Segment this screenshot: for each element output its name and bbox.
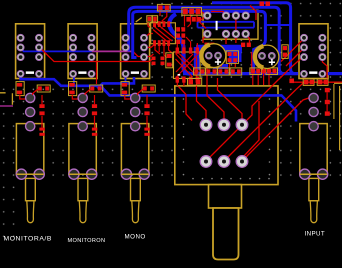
wire: blue pour below C1 <box>213 64 228 69</box>
wire: red diag to INPUT pad row2 <box>286 47 305 66</box>
capacitor C2 <box>255 45 279 68</box>
wire: red continuation to SW3 right pad <box>133 51 154 56</box>
svg-text:MONO: MONO <box>125 234 146 241</box>
wire: blue pour left of C2 upper <box>234 45 242 62</box>
grid dots: top right region <box>258 2 342 84</box>
wire: blue top arc b <box>133 11 266 73</box>
svg-text:MONITORA/B: MONITORA/B <box>4 236 52 243</box>
white silk dash near U3 <box>178 74 181 76</box>
wire: blue pour left of C1 <box>194 47 201 70</box>
SMD right of cap2 <box>282 45 294 83</box>
wire: blue pour band above caps <box>196 45 242 53</box>
toggle switch S4 pads (INPUT) <box>300 34 328 179</box>
yellow fragment at right board edge <box>334 83 342 150</box>
wire: main bottom blue bus across switch tails to pot <box>21 74 296 122</box>
wire: blue DIP elbow right <box>253 22 255 28</box>
pot bushing <box>209 185 242 208</box>
wire: red bus at right edge <box>290 81 342 83</box>
wire: red X inside SOIC U3 <box>176 54 199 79</box>
wire: red diagonals inside SOIC U2 <box>153 26 172 42</box>
SMD pair top right <box>260 2 271 7</box>
grid dots: middle band <box>0 84 342 181</box>
wire: red diag to INPUT pad row1 <box>281 38 305 62</box>
grid dots: top center cluster region <box>145 2 258 84</box>
wire: red drop from SW2 to tail <box>96 62 98 84</box>
potentiometer VR1 body <box>175 86 278 185</box>
SMD trio top center <box>182 8 202 16</box>
toggle switch S1 pads (MONITORA/B) <box>16 34 44 179</box>
wire: red from pot bottom pads up right to INPUT <box>206 57 305 161</box>
wire: blue S-curve through SMD cluster <box>169 14 190 74</box>
IC U1 DIP body <box>203 10 258 39</box>
pot inner grid dots <box>183 98 271 179</box>
wire: blue pour between caps <box>229 47 237 63</box>
toggle switch S2 pads (MONITORON) <box>69 34 97 179</box>
SMD row right of trio <box>186 17 201 22</box>
wire: blue stub SW3 bottom pad <box>125 74 127 84</box>
SOIC U2 <box>151 21 176 46</box>
wire: blue bus right of INPUT switch <box>328 72 342 75</box>
toggle switch S3 body (MONO) <box>121 24 150 223</box>
INPUT switch right-side SMD cluster <box>303 79 334 119</box>
SMD pair top left <box>157 4 170 11</box>
grid dots: lower left columns <box>0 181 20 243</box>
wire: blue stub SW2 bottom pad <box>73 74 75 86</box>
wire: magenta overlapped segment SW2 to SW3 <box>92 50 133 52</box>
SOIC U3 <box>174 48 201 83</box>
wire: red diag at pot top left <box>179 87 193 121</box>
wire: red net SW1 row3 under SW2 SW3 <box>40 47 154 61</box>
wire: blue DIP elbow left <box>197 22 199 28</box>
capacitor C1 <box>201 44 226 68</box>
wire: red SW4 pad down to SMD <box>322 57 327 79</box>
wire: red vertical in pot right <box>244 101 260 157</box>
SMD pads above pot left <box>188 78 202 85</box>
wire: blue branch below SW3 <box>97 77 134 89</box>
wire: blue into DIP row 2 <box>198 27 255 29</box>
svg-text:MONITORON: MONITORON <box>68 238 106 244</box>
toggle switch S4 body (INPUT) <box>299 24 328 223</box>
toggle switch S3 pads (MONO) <box>121 34 149 179</box>
SMD mini grid right of U2 <box>176 27 185 44</box>
wire: red verticals in DIP <box>235 16 237 34</box>
wire: magenta stub at left board edge <box>0 105 13 107</box>
wire: red cap pads down to SMD row <box>206 61 208 69</box>
wire: red SW3 pads to cluster stubs <box>144 34 153 38</box>
wire: red vertical left of C2 <box>251 52 253 70</box>
wire: blue into DIP row 1 <box>198 21 255 23</box>
SMD vertical pair between caps <box>226 51 238 64</box>
wire: blue net SW1 pad through SW2 <box>21 47 92 51</box>
SMD pads row below cap2 <box>250 68 278 75</box>
yellow diagonal top center <box>136 18 142 23</box>
wire: blue top arc a from SW3 to top bus and down right <box>129 7 284 73</box>
SMD resistor row below caps <box>194 68 206 75</box>
SMD pads above cap1 <box>205 43 251 47</box>
pot shaft <box>213 208 239 260</box>
wire: red fan inside pot from top pads <box>197 57 207 125</box>
yellow fragment at left board edge <box>0 93 12 105</box>
pot pads <box>200 119 248 167</box>
wire: red extra cluster segments <box>155 46 160 54</box>
SMD left of U3 <box>166 53 173 68</box>
toggle switch S1 body (MONITORA/B) <box>16 24 45 223</box>
toggle switch S2 body (MONITORON) <box>68 24 97 223</box>
IC U1 DIP pads <box>204 12 250 38</box>
wire: blue bus under capacitors <box>183 72 298 75</box>
wire: red cluster verticals <box>184 15 186 27</box>
SMD pair above U2 <box>147 16 158 22</box>
SMD resistors row left of U3 <box>152 57 165 66</box>
svg-text:INPUT: INPUT <box>305 231 326 238</box>
wire: blue top line c <box>212 3 295 74</box>
wire: red verticals below cap2 into pot <box>252 74 254 86</box>
wire: blue connector in right bundle <box>265 24 290 26</box>
